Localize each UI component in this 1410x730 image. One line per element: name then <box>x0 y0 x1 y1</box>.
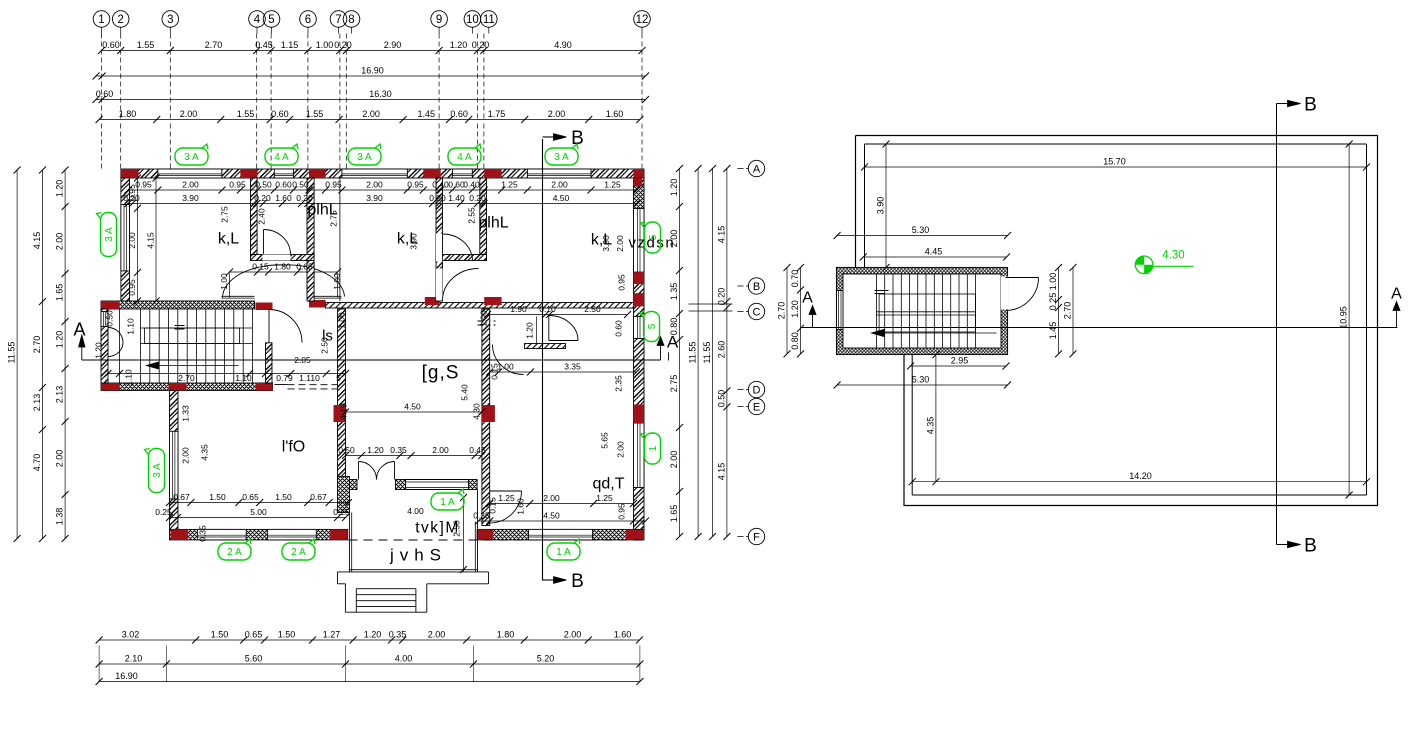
svg-text:0.10: 0.10 <box>539 304 556 314</box>
svg-text:4.35: 4.35 <box>200 444 210 461</box>
svg-text:0.65: 0.65 <box>296 262 313 272</box>
svg-text:1.50: 1.50 <box>209 492 226 502</box>
svg-text:2.00: 2.00 <box>548 109 566 119</box>
svg-text:0.20: 0.20 <box>472 40 490 50</box>
svg-text:5: 5 <box>336 373 341 383</box>
svg-text:2.00: 2.00 <box>182 180 199 190</box>
svg-text:0.65: 0.65 <box>242 492 259 502</box>
svg-text:4 A: 4 A <box>457 152 472 163</box>
svg-text:3: 3 <box>167 14 173 26</box>
svg-text:2.00: 2.00 <box>616 441 626 458</box>
svg-text:0.50: 0.50 <box>292 180 309 190</box>
svg-text:0.80: 0.80 <box>790 332 800 350</box>
svg-text:4.19: 4.19 <box>339 403 349 420</box>
svg-text:5: 5 <box>648 234 659 240</box>
svg-text:0.95: 0.95 <box>325 180 342 190</box>
svg-text:0.40: 0.40 <box>463 180 480 190</box>
svg-text:2.00: 2.00 <box>551 180 568 190</box>
svg-text:2.70: 2.70 <box>205 40 223 50</box>
svg-text:0.95: 0.95 <box>407 180 424 190</box>
svg-text:2.75: 2.75 <box>669 375 679 393</box>
svg-text:1.10: 1.10 <box>124 369 134 386</box>
svg-text:D: D <box>753 384 761 396</box>
svg-text:2.40: 2.40 <box>257 208 267 225</box>
svg-text:B: B <box>1304 536 1317 557</box>
svg-text:12: 12 <box>636 14 649 26</box>
svg-text:1.65: 1.65 <box>55 284 65 302</box>
svg-text:1 A: 1 A <box>556 547 571 558</box>
svg-text:2.13: 2.13 <box>55 386 65 404</box>
svg-text:plhL: plhL <box>307 202 337 219</box>
svg-text:0.35: 0.35 <box>198 525 208 542</box>
svg-text:1.80: 1.80 <box>119 109 137 119</box>
svg-text:1.80: 1.80 <box>497 630 515 640</box>
svg-text:1.60: 1.60 <box>275 193 292 203</box>
svg-text:2.00: 2.00 <box>180 109 198 119</box>
svg-text:0.50: 0.50 <box>338 445 355 455</box>
svg-text:0.79: 0.79 <box>276 373 293 383</box>
svg-text:2.70: 2.70 <box>178 373 195 383</box>
svg-text:5.60: 5.60 <box>245 654 263 664</box>
svg-text:0.25: 0.25 <box>1048 293 1058 311</box>
svg-text:3 A: 3 A <box>357 152 372 163</box>
svg-text:8: 8 <box>348 14 354 26</box>
svg-text:2.13: 2.13 <box>32 394 42 412</box>
svg-text:1.45: 1.45 <box>418 109 436 119</box>
svg-text:3 A: 3 A <box>184 152 199 163</box>
svg-text:2.55: 2.55 <box>467 207 477 224</box>
svg-text:5.20: 5.20 <box>537 654 555 664</box>
svg-text:1.00: 1.00 <box>1048 273 1058 291</box>
svg-text:0.35: 0.35 <box>389 630 407 640</box>
svg-text:6: 6 <box>305 14 311 26</box>
svg-text:0.15: 0.15 <box>252 262 269 272</box>
svg-text:1.00: 1.00 <box>219 273 229 290</box>
svg-text:1.60: 1.60 <box>606 109 624 119</box>
svg-text:4.00: 4.00 <box>395 654 413 664</box>
svg-text:0.25: 0.25 <box>155 507 172 517</box>
svg-text:2.00: 2.00 <box>428 630 446 640</box>
svg-text:1.10: 1.10 <box>235 373 252 383</box>
svg-text:10: 10 <box>466 14 479 26</box>
svg-text:1.20: 1.20 <box>367 445 384 455</box>
svg-text:3.90: 3.90 <box>182 193 199 203</box>
svg-text:1.25: 1.25 <box>604 180 621 190</box>
svg-text:11.55: 11.55 <box>702 342 712 364</box>
svg-text:1.50: 1.50 <box>275 492 292 502</box>
svg-text:5: 5 <box>647 323 658 329</box>
svg-text:ls: ls <box>322 328 333 345</box>
svg-text:1.00: 1.00 <box>332 273 342 290</box>
svg-text:16.30: 16.30 <box>369 89 392 99</box>
svg-text:0.67: 0.67 <box>173 492 190 502</box>
svg-text:16.90: 16.90 <box>115 671 138 681</box>
svg-text:A: A <box>1391 286 1402 303</box>
svg-text:k,L: k,L <box>591 232 612 249</box>
svg-text:1.65: 1.65 <box>669 505 679 523</box>
svg-text:1.20: 1.20 <box>55 331 65 349</box>
svg-text:4.15: 4.15 <box>32 232 42 250</box>
svg-text:0.35: 0.35 <box>390 445 407 455</box>
svg-text:tvk]M: tvk]M <box>415 520 460 537</box>
svg-text:4 A: 4 A <box>274 152 289 163</box>
svg-text:1: 1 <box>98 14 104 26</box>
svg-text:2.00: 2.00 <box>181 447 191 464</box>
svg-text:1.60: 1.60 <box>614 630 632 640</box>
svg-text:2.70: 2.70 <box>32 336 42 354</box>
svg-text:3.35: 3.35 <box>564 362 581 372</box>
svg-text:E: E <box>753 401 760 413</box>
svg-text:2.00: 2.00 <box>615 235 625 252</box>
svg-text:4.50: 4.50 <box>404 402 421 412</box>
svg-text:4.30: 4.30 <box>471 403 481 420</box>
svg-text:1.20: 1.20 <box>525 322 535 339</box>
svg-text:1.27: 1.27 <box>323 630 341 640</box>
svg-text:5.40: 5.40 <box>460 384 470 401</box>
svg-text:0.60: 0.60 <box>275 180 292 190</box>
svg-text:0.35: 0.35 <box>473 511 490 521</box>
svg-text:1.20: 1.20 <box>55 180 65 198</box>
svg-text:qd,T: qd,T <box>592 476 624 493</box>
svg-text:2.35: 2.35 <box>614 375 624 392</box>
svg-text:2.00: 2.00 <box>55 233 65 251</box>
svg-text:1: 1 <box>648 445 659 451</box>
svg-text:0.60: 0.60 <box>96 89 114 99</box>
svg-text:1.55: 1.55 <box>306 109 324 119</box>
svg-text:2.60: 2.60 <box>716 341 726 359</box>
svg-text:0.25: 0.25 <box>333 507 350 517</box>
svg-text:1.55: 1.55 <box>137 40 155 50</box>
svg-text:4.30: 4.30 <box>1162 250 1184 262</box>
svg-text:2.00: 2.00 <box>564 630 582 640</box>
svg-text:0.65: 0.65 <box>245 630 263 640</box>
svg-text:0.60: 0.60 <box>271 109 289 119</box>
svg-text:4: 4 <box>254 14 261 26</box>
svg-text:0.45: 0.45 <box>469 445 486 455</box>
svg-text:5: 5 <box>268 14 274 26</box>
svg-text:1.35: 1.35 <box>669 283 679 301</box>
svg-text:0.20: 0.20 <box>716 288 726 306</box>
svg-text:k,L: k,L <box>218 231 239 248</box>
svg-text:4.15: 4.15 <box>716 226 726 244</box>
svg-text:4.90: 4.90 <box>554 40 572 50</box>
svg-text:1.80: 1.80 <box>274 262 291 272</box>
svg-text:0.20: 0.20 <box>469 193 486 203</box>
svg-text:1.110: 1.110 <box>299 373 320 383</box>
svg-text:1.38: 1.38 <box>55 508 65 526</box>
svg-text:4.45: 4.45 <box>925 247 943 257</box>
svg-text:4.35: 4.35 <box>925 417 935 435</box>
svg-text:0.20: 0.20 <box>429 193 446 203</box>
svg-text:2.00: 2.00 <box>669 451 679 469</box>
svg-text:0.45: 0.45 <box>255 40 273 50</box>
svg-text:1.00: 1.00 <box>479 310 489 327</box>
svg-text:k,L: k,L <box>397 231 418 248</box>
svg-text:0.60: 0.60 <box>450 109 468 119</box>
svg-text:16.90: 16.90 <box>361 66 384 76</box>
svg-text:1.10: 1.10 <box>126 318 136 335</box>
svg-text:3 A: 3 A <box>554 152 569 163</box>
svg-text:1.00: 1.00 <box>337 312 347 329</box>
svg-text:11.55: 11.55 <box>7 342 17 364</box>
svg-text:7: 7 <box>335 14 341 26</box>
svg-text:2.00: 2.00 <box>543 493 560 503</box>
svg-text:2.70: 2.70 <box>777 302 787 320</box>
svg-text:11: 11 <box>483 14 495 26</box>
svg-text:[g,S: [g,S <box>422 363 460 384</box>
svg-text:1.50: 1.50 <box>211 630 229 640</box>
svg-text:4.15: 4.15 <box>146 232 156 249</box>
svg-text:C: C <box>753 306 761 318</box>
svg-text:2.95: 2.95 <box>951 356 969 366</box>
svg-text:2.10: 2.10 <box>125 654 143 664</box>
svg-text:2.00: 2.00 <box>362 109 380 119</box>
svg-text:1.75: 1.75 <box>488 109 506 119</box>
svg-text:0.60: 0.60 <box>614 320 624 337</box>
svg-text:0.50: 0.50 <box>105 310 115 327</box>
svg-text:1.15: 1.15 <box>281 40 299 50</box>
svg-text:3.02: 3.02 <box>122 630 140 640</box>
svg-text:3.90: 3.90 <box>366 193 383 203</box>
svg-text:F: F <box>753 531 760 543</box>
svg-text:B: B <box>1304 95 1317 116</box>
svg-text:0.67: 0.67 <box>310 492 327 502</box>
svg-text:2.50: 2.50 <box>584 304 601 314</box>
svg-text:1 A: 1 A <box>440 497 455 508</box>
svg-text:B: B <box>571 571 584 592</box>
svg-text:0.70: 0.70 <box>790 270 800 288</box>
svg-text:4.00: 4.00 <box>407 506 424 516</box>
svg-text:2 A: 2 A <box>291 547 306 558</box>
svg-text:3 A: 3 A <box>104 227 115 242</box>
svg-text:2.75: 2.75 <box>220 206 230 223</box>
svg-text:1.90: 1.90 <box>510 304 527 314</box>
svg-text:2: 2 <box>117 14 123 26</box>
svg-text:0.20: 0.20 <box>334 40 352 50</box>
svg-text:5.30: 5.30 <box>912 225 930 235</box>
svg-text:11.55: 11.55 <box>688 342 698 364</box>
svg-text:4.50: 4.50 <box>553 193 570 203</box>
svg-text:5.30: 5.30 <box>912 375 930 385</box>
svg-text:0.95: 0.95 <box>127 279 137 296</box>
svg-text:1.45: 1.45 <box>1048 322 1058 340</box>
svg-text:0.50: 0.50 <box>716 390 726 408</box>
svg-text:1.60: 1.60 <box>516 498 526 515</box>
svg-text:3.90: 3.90 <box>876 197 886 215</box>
svg-text:A: A <box>73 320 85 340</box>
svg-text:1.20: 1.20 <box>364 630 382 640</box>
svg-text:2.70: 2.70 <box>1063 302 1073 320</box>
svg-text:1.25: 1.25 <box>596 493 613 503</box>
svg-text:A: A <box>802 290 813 307</box>
svg-text:2.00: 2.00 <box>55 450 65 468</box>
svg-text:l'fO: l'fO <box>282 439 306 456</box>
svg-text:1.55: 1.55 <box>237 109 255 119</box>
svg-text:0.60: 0.60 <box>102 40 120 50</box>
svg-text:0.40: 0.40 <box>432 180 449 190</box>
svg-text:14.20: 14.20 <box>1129 471 1152 481</box>
svg-text:0.95: 0.95 <box>127 184 137 201</box>
svg-text:1.20: 1.20 <box>450 40 468 50</box>
svg-text:A: A <box>667 333 679 352</box>
svg-text:0.95: 0.95 <box>617 503 627 520</box>
svg-text:1.00: 1.00 <box>497 362 514 372</box>
svg-text:0.95: 0.95 <box>229 180 246 190</box>
svg-text:4.50: 4.50 <box>543 511 560 521</box>
svg-text:4.15: 4.15 <box>716 463 726 481</box>
svg-text:2.00: 2.00 <box>127 232 137 249</box>
svg-text:1.40: 1.40 <box>448 193 465 203</box>
svg-text:1.00: 1.00 <box>316 40 334 50</box>
svg-text:4.70: 4.70 <box>32 454 42 472</box>
svg-text:2.90: 2.90 <box>384 40 402 50</box>
svg-text:1.25: 1.25 <box>498 493 515 503</box>
svg-text:1.20: 1.20 <box>669 179 679 197</box>
svg-text:0.50: 0.50 <box>255 180 272 190</box>
svg-text:1.25: 1.25 <box>501 180 518 190</box>
svg-text:0.20: 0.20 <box>254 193 271 203</box>
svg-text:9: 9 <box>436 14 442 26</box>
svg-text:1.20: 1.20 <box>94 342 104 359</box>
svg-text:jvhS: jvhS <box>389 546 447 565</box>
svg-text:1.33: 1.33 <box>181 405 191 422</box>
svg-text:A: A <box>753 163 761 175</box>
svg-text:B: B <box>753 281 760 293</box>
svg-text:3 A: 3 A <box>152 463 163 478</box>
svg-text:2.05: 2.05 <box>294 355 311 365</box>
svg-text:5.00: 5.00 <box>250 507 267 517</box>
svg-text:1.50: 1.50 <box>278 630 296 640</box>
svg-text:2.00: 2.00 <box>432 445 449 455</box>
svg-text:2.00: 2.00 <box>366 180 383 190</box>
svg-text:5.65: 5.65 <box>600 432 610 449</box>
svg-text:0.95: 0.95 <box>617 274 627 291</box>
svg-text:15.70: 15.70 <box>1103 157 1126 167</box>
svg-text:1.20: 1.20 <box>790 300 800 318</box>
svg-text:2 A: 2 A <box>227 547 242 558</box>
svg-text:10.95: 10.95 <box>1339 306 1349 329</box>
svg-text:plhL: plhL <box>478 215 508 232</box>
